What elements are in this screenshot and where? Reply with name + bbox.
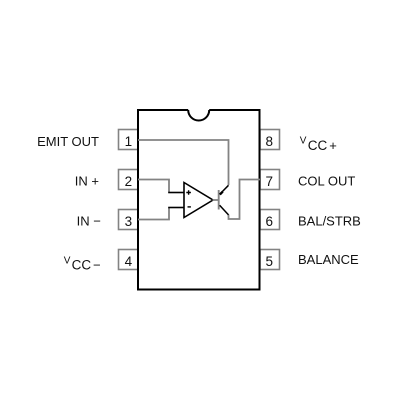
svg-text:2: 2 xyxy=(125,174,133,189)
- input stub xyxy=(168,207,184,209)
svg-text:6: 6 xyxy=(265,214,273,229)
svg-text:IN −: IN − xyxy=(77,214,101,229)
IC body U1 xyxy=(138,110,260,290)
svg-text:4: 4 xyxy=(125,254,133,269)
wire pin7 to transistor collector xyxy=(229,180,261,220)
svg-text:8: 8 xyxy=(265,134,273,149)
wire pin1 to transistor emitter xyxy=(138,140,229,185)
pin 6 box xyxy=(260,210,280,230)
svg-text:COL OUT: COL OUT xyxy=(298,174,355,189)
pin 4 box xyxy=(119,250,139,270)
svg-text:3: 3 xyxy=(125,214,133,229)
transistor Q1 emitter lead (to pin1) xyxy=(220,185,229,194)
svg-text:BAL/STRB: BAL/STRB xyxy=(298,214,361,229)
pin 3 box xyxy=(119,210,139,230)
svg-text:1: 1 xyxy=(125,134,133,149)
wire pin2 to comparator + input xyxy=(138,180,169,193)
pin 2 box xyxy=(119,170,139,190)
wire comparator output to base xyxy=(213,199,220,201)
pin 7 box xyxy=(260,170,280,190)
wire pin3 to comparator - input xyxy=(138,208,169,220)
+ input stub xyxy=(168,192,184,194)
svg-text:5: 5 xyxy=(265,254,273,269)
pin 1 box xyxy=(119,130,139,150)
svg-text:7: 7 xyxy=(265,174,273,189)
svg-text:BALANCE: BALANCE xyxy=(298,252,359,267)
op-amp comparator A1 xyxy=(184,183,213,218)
+ input label xyxy=(186,190,191,195)
- input label xyxy=(188,206,191,208)
notch (pin-1 index) xyxy=(188,109,209,121)
transistor Q1 emitter arrow xyxy=(220,192,223,195)
transistor Q1 base bar xyxy=(218,190,220,210)
pin 5 box xyxy=(260,250,280,270)
svg-text:IN +: IN + xyxy=(75,174,99,189)
pin 8 box xyxy=(260,130,280,150)
transistor Q1 collector lead (to pin7) xyxy=(220,205,229,215)
svg-text:EMIT OUT: EMIT OUT xyxy=(37,134,99,149)
